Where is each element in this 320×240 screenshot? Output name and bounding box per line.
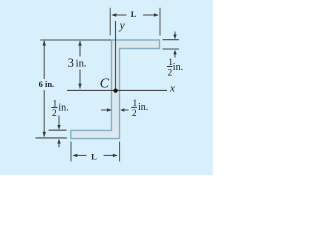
svg-text:in.: in. bbox=[58, 102, 68, 113]
svg-text:L: L bbox=[91, 152, 97, 162]
svg-text:2: 2 bbox=[168, 68, 173, 78]
svg-text:2: 2 bbox=[52, 109, 57, 119]
svg-text:C: C bbox=[100, 76, 110, 91]
svg-text:in.: in. bbox=[173, 62, 183, 73]
svg-text:x: x bbox=[169, 83, 175, 95]
svg-text:in.: in. bbox=[138, 102, 148, 113]
svg-text:in.: in. bbox=[76, 58, 87, 70]
svg-text:y: y bbox=[119, 20, 126, 32]
svg-text:6 in.: 6 in. bbox=[39, 79, 55, 89]
svg-text:L: L bbox=[131, 9, 137, 19]
svg-text:2: 2 bbox=[132, 109, 137, 119]
svg-text:3: 3 bbox=[68, 56, 74, 70]
